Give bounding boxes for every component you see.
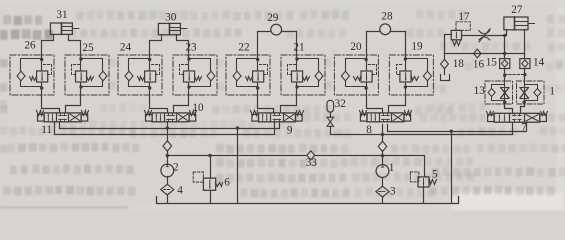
svg-text:24: 24 (120, 42, 132, 54)
wire right return riser (451, 132, 453, 203)
wire pump2 riser (167, 122, 169, 142)
svg-text:10: 10 (192, 102, 204, 114)
directional valve 9 (251, 111, 304, 122)
wire left main to valve port (150, 95, 168, 113)
wire motor29 crossbar (258, 31, 297, 33)
cartridge check valve 15 (500, 59, 510, 69)
wire L1 down to check 15 (504, 36, 506, 59)
wire motor28 left leg (366, 32, 368, 57)
shutoff valve under accumulator (327, 117, 334, 126)
junction L1/cyl27 left leg (503, 34, 506, 37)
svg-text:31: 31 (56, 9, 67, 21)
wire cyl30 left leg (150, 35, 162, 57)
wire motor28 crossbar (367, 31, 406, 33)
junction block13L bottom (503, 101, 506, 104)
wire filter4 to tank line (167, 195, 169, 203)
junction merge/pump1 riser (381, 154, 384, 157)
check valve 16 (474, 49, 481, 58)
svg-text:30: 30 (165, 11, 177, 23)
wire check18 to tank (444, 69, 446, 75)
cylinder 31 (50, 23, 79, 34)
cylinder 27 (504, 17, 535, 30)
check valve above pump 1 (378, 141, 387, 151)
wire valve17 out L1 (462, 35, 503, 37)
filter 4 (161, 184, 174, 195)
wire shutoff to bus (330, 127, 332, 135)
hydraulic motor 29 (271, 24, 282, 35)
wire relief5 to tank (423, 187, 425, 203)
overload valve block 25 (65, 55, 109, 95)
directional valve 8 (360, 111, 412, 122)
wire valve17 input (445, 35, 452, 54)
wire accumulator bus to valve7 (331, 123, 513, 135)
hydraulic motor 28 (380, 24, 391, 35)
wire cyl30 right leg (177, 35, 189, 57)
junction merge/relief6 (208, 154, 211, 157)
wire check to pump2 (167, 151, 169, 165)
svg-text:23: 23 (185, 42, 197, 54)
wire motor28 right leg (405, 32, 407, 57)
svg-text:6: 6 (224, 177, 230, 189)
svg-text:26: 26 (24, 40, 36, 52)
svg-text:8: 8 (366, 124, 372, 136)
relief valve 6 (193, 172, 222, 190)
svg-text:27: 27 (511, 4, 523, 16)
svg-text:11: 11 (41, 124, 52, 136)
pilot dashed cross line (505, 74, 525, 76)
overload valve block 26 (10, 55, 54, 96)
junction block13R bottom (523, 101, 526, 104)
svg-text:5: 5 (432, 168, 438, 180)
wire cyl31 left leg (42, 35, 54, 57)
wire 15 to block13L (504, 69, 506, 81)
wire right main to valve port (66, 95, 81, 113)
wire accumulator to shutoff (330, 113, 332, 118)
wire right main to valve port (389, 95, 406, 113)
svg-text:18: 18 (453, 58, 465, 70)
svg-text:14: 14 (533, 56, 545, 68)
check valve above pump 2 (163, 141, 172, 151)
svg-text:20: 20 (350, 41, 362, 53)
wire bus2 valve11-valve9 (55, 122, 275, 135)
wire L2 to check 14 (524, 54, 526, 59)
wire cyl27 right leg (524, 30, 526, 54)
svg-text:22: 22 (238, 42, 249, 54)
junction right bus/return riser (450, 130, 453, 133)
throttle valve (479, 29, 490, 42)
schematic ink (10, 4, 555, 203)
svg-text:16: 16 (473, 58, 485, 70)
cylinder 30 (158, 23, 187, 34)
junction bus1/pump2 riser (166, 126, 169, 129)
overload valve block 22 (226, 55, 270, 96)
svg-text:25: 25 (82, 42, 94, 54)
wire valve11 port to bus1 (59, 122, 61, 129)
wire L2 (445, 53, 525, 55)
junction pilot right (523, 73, 526, 76)
svg-text:28: 28 (381, 10, 393, 22)
wire return bus1 left (60, 122, 280, 129)
relief valve 5 (410, 172, 436, 187)
junction accumulator bus/pump1 riser (381, 133, 384, 136)
pump 1 (376, 165, 389, 178)
svg-text:29: 29 (267, 12, 279, 24)
directional valve 10 (145, 111, 197, 122)
directional valve 7 (487, 112, 548, 123)
svg-text:15: 15 (486, 57, 498, 69)
svg-text:32: 32 (335, 98, 346, 110)
svg-text:33: 33 (306, 157, 318, 169)
junction merge line start (166, 154, 169, 157)
wire tank drop (237, 129, 239, 203)
wire block13L to valve7 (505, 105, 513, 114)
overload valve block 19 (389, 55, 433, 95)
junction bus1/tank drop (236, 126, 239, 129)
svg-text:4: 4 (177, 184, 183, 196)
pump 2 (161, 164, 174, 177)
cartridge check valve 14 (520, 59, 530, 69)
overload valve block 21 (281, 55, 325, 95)
wire left main to valve port (258, 95, 274, 113)
wire check to pump1 (382, 151, 384, 165)
svg-text:9: 9 (287, 124, 293, 136)
wire right main to valve port (174, 95, 189, 113)
wire 14 to block13R (524, 69, 526, 81)
pilot check block 13 (right) (517, 81, 545, 104)
wire relief6 riser (210, 156, 212, 179)
wire valve11 port to bus2 (54, 122, 56, 135)
directional valve 11 (37, 111, 89, 122)
wire motor29 right leg (296, 32, 298, 57)
wire relief6 to tank (210, 191, 212, 203)
check valve 33 (307, 151, 315, 160)
svg-text:1: 1 (389, 162, 395, 174)
overload valve block 24 (118, 55, 162, 96)
wire pump1 riser (382, 125, 384, 142)
wire block13R to valve7 (521, 105, 525, 114)
svg-text:2: 2 (173, 162, 179, 174)
wire left main to valve port (367, 95, 383, 113)
pressure valve 17 (451, 22, 470, 46)
wire right main to valve port (281, 95, 297, 113)
svg-text:19: 19 (411, 40, 423, 52)
tank line (157, 197, 459, 204)
svg-text:7: 7 (521, 121, 527, 133)
pilot check block 13 (left) (485, 81, 513, 104)
overload valve block 20 (334, 55, 378, 96)
tank symbol under 18 (441, 75, 450, 81)
junction pilot left (503, 74, 506, 77)
svg-text:1: 1 (549, 85, 555, 97)
svg-text:13: 13 (474, 85, 486, 97)
wire to check 18 (444, 54, 446, 60)
wire pump merge line (168, 155, 307, 157)
overload valve block 23 (173, 55, 217, 95)
svg-text:21: 21 (293, 42, 304, 54)
accumulator 32 (327, 100, 334, 112)
wire valve8 to right bus (388, 123, 527, 132)
check valve 18 (441, 59, 449, 68)
wire cyl27 left leg (506, 30, 508, 36)
wire left main to valve port (42, 95, 60, 113)
wire pump1 to filter3 (382, 178, 384, 187)
wire cyl31 right leg (69, 35, 81, 57)
wire filter3 to tank line (382, 197, 384, 203)
wire merge line right (315, 156, 425, 177)
wire motor29 left leg (257, 32, 259, 57)
svg-text:3: 3 (390, 185, 396, 197)
junction L2/left chain (503, 52, 506, 55)
filter 3 (376, 186, 389, 197)
svg-text:17: 17 (458, 11, 470, 23)
wire pump2 to filter4 (167, 177, 169, 185)
